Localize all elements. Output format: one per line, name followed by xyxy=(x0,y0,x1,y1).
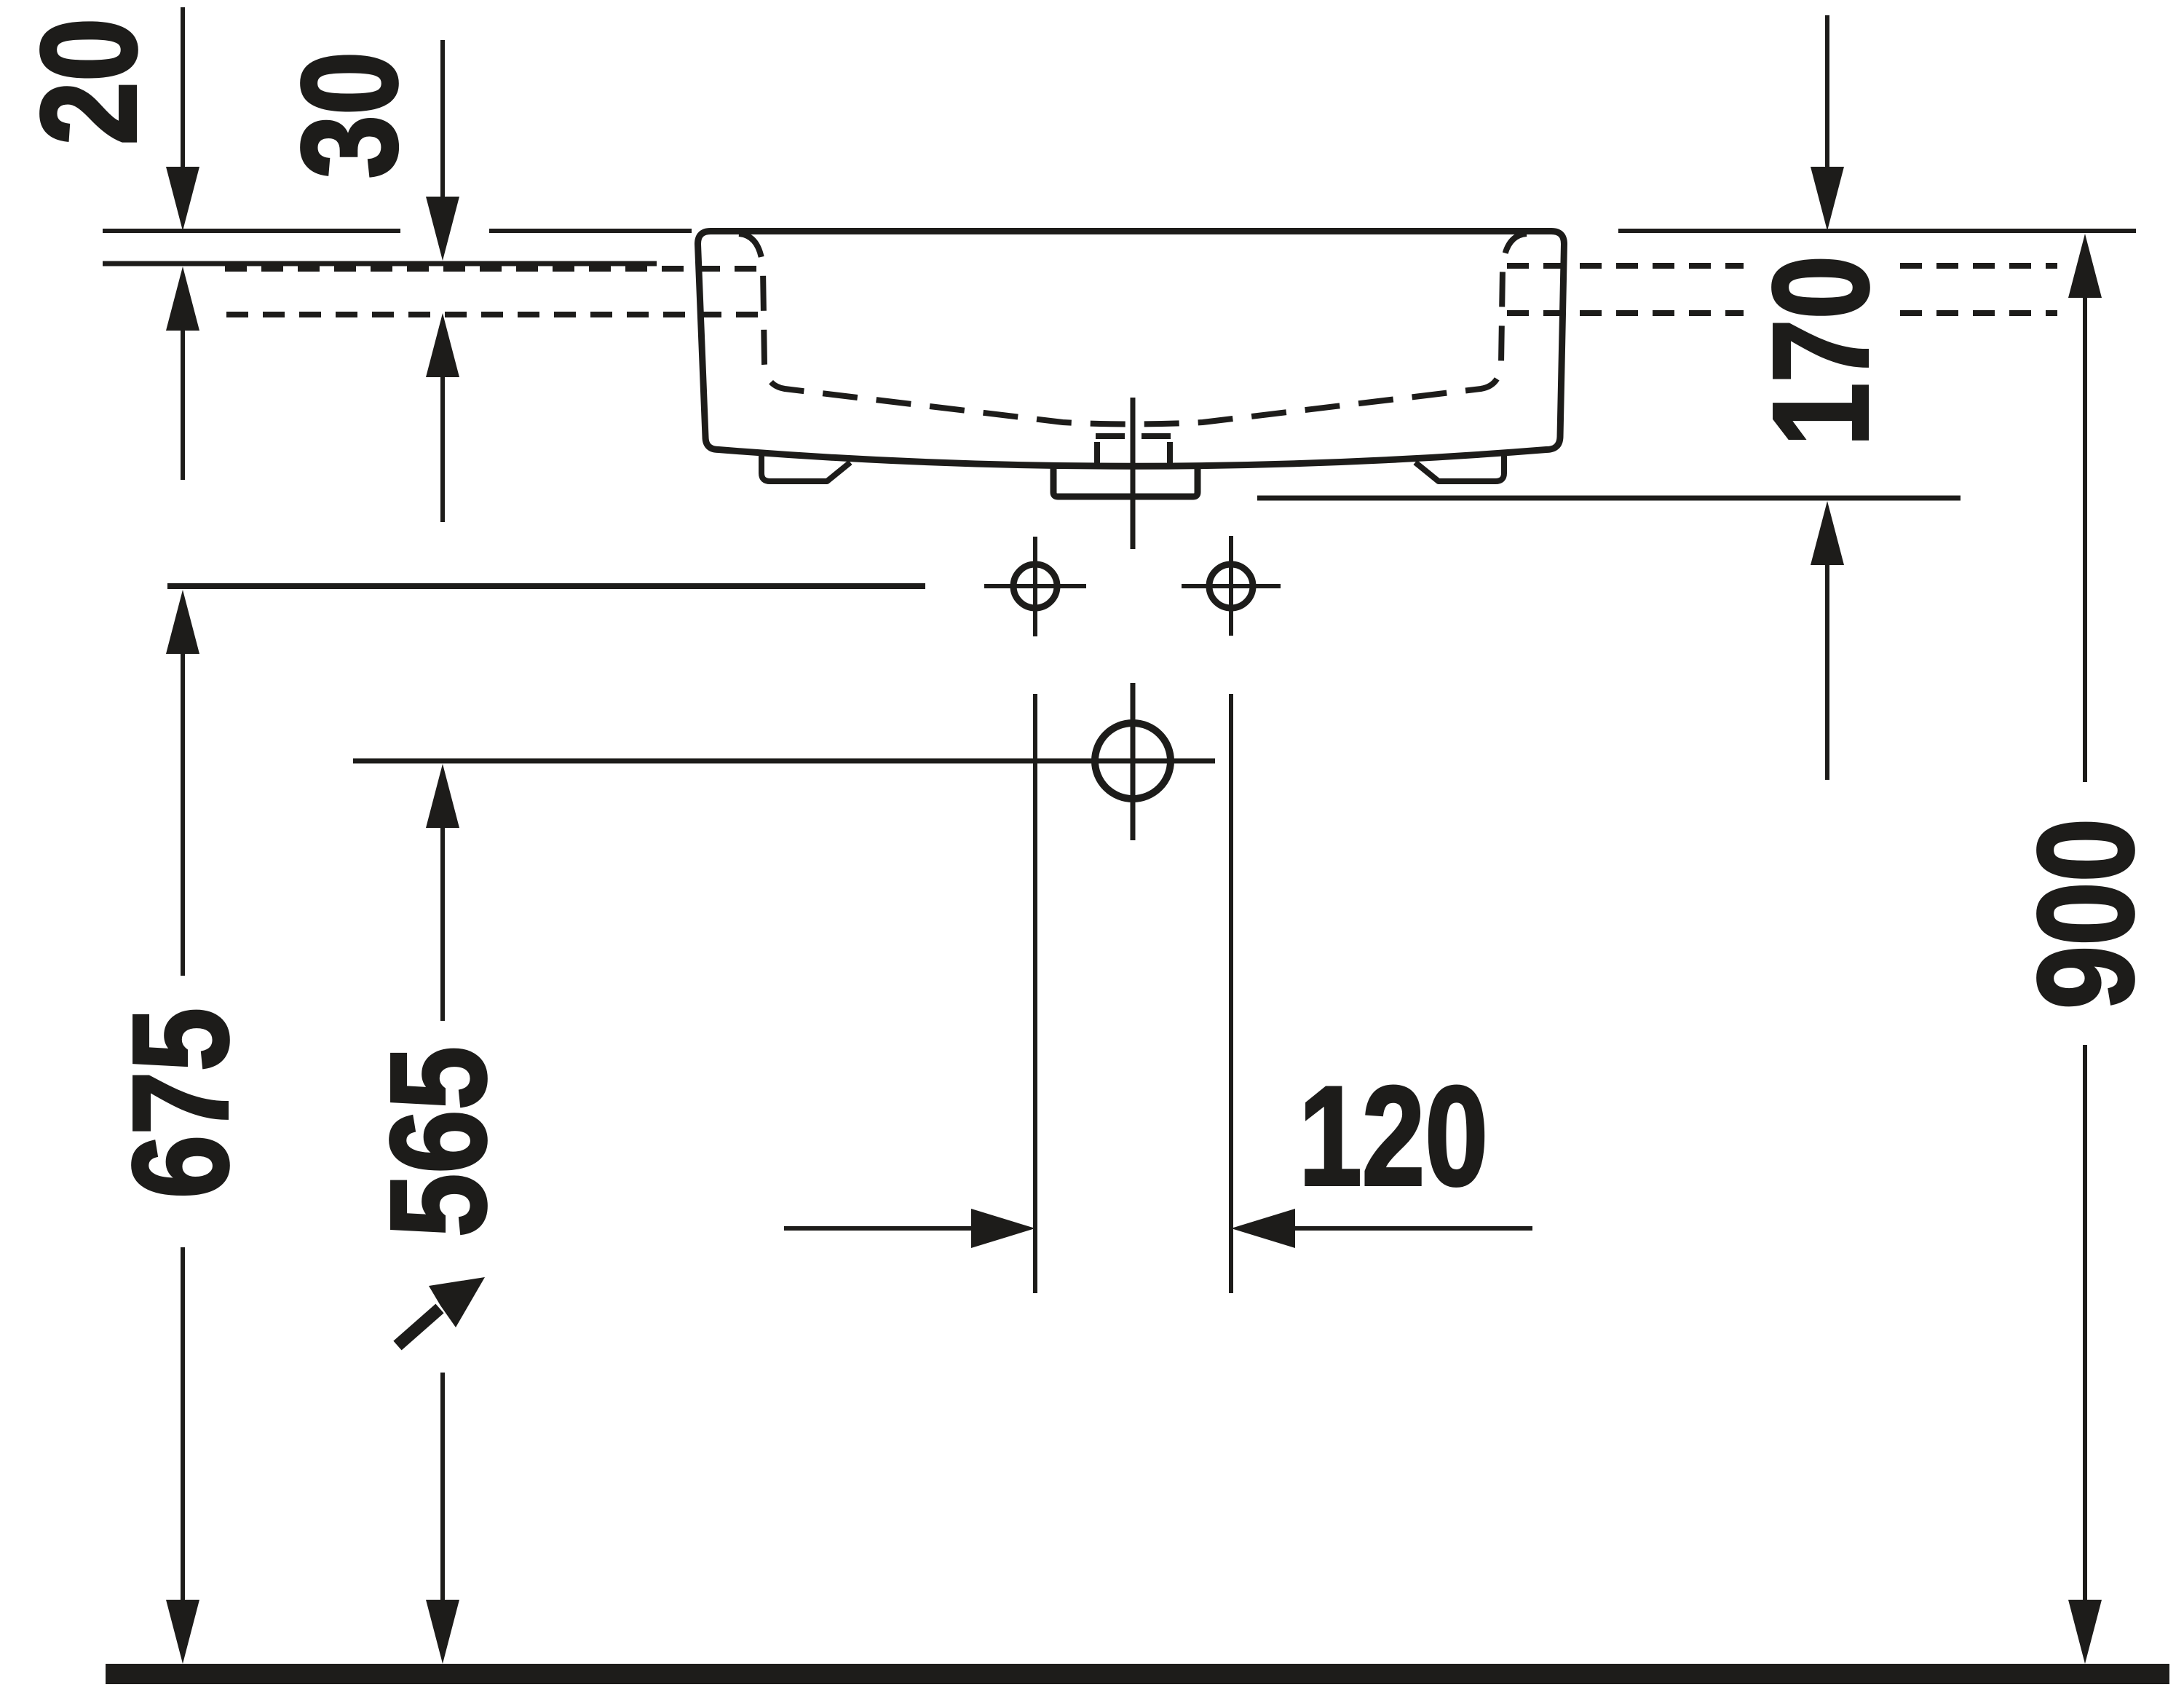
wall reference line upper right xyxy=(1618,229,2136,233)
dim 675 line upper xyxy=(181,654,185,976)
dim 120 right arrowhead xyxy=(1231,1209,1295,1248)
hidden rim dashed line left lower xyxy=(226,312,763,317)
dim 170 arrow up xyxy=(1811,501,1844,565)
hidden rim dashed line right lower segment b xyxy=(1900,310,2057,316)
dim 30 line lower xyxy=(440,377,445,522)
drain height extension line xyxy=(353,759,1215,764)
dim 565 line upper xyxy=(440,828,445,1021)
drain hole circle xyxy=(1095,723,1171,799)
dim 120 right arrow line xyxy=(1295,1226,1532,1231)
wall reference line upper left xyxy=(103,229,400,233)
dim 170 line upper xyxy=(1825,15,1829,167)
hidden drain pipe dashes vertical left xyxy=(1094,442,1100,464)
drain fitting rectangle xyxy=(1053,466,1198,497)
dim 20 line upper xyxy=(181,7,185,167)
dim 565 arrow down xyxy=(426,1600,459,1664)
hidden rim dashed line right upper segment b xyxy=(1900,263,2057,269)
faucet hole axis extension line xyxy=(167,583,925,589)
basin underside reference line right xyxy=(1257,496,1961,501)
dim 565 line lower xyxy=(440,1373,445,1600)
dim 120 extension line right xyxy=(1229,694,1233,1293)
dim 900 line upper xyxy=(2083,298,2087,782)
countertop line left xyxy=(103,261,657,266)
dim 120 left arrowhead xyxy=(971,1209,1035,1248)
dim 30 arrow up xyxy=(426,313,459,377)
dim 900 line lower xyxy=(2083,1045,2087,1600)
dim 675 arrow down xyxy=(166,1600,199,1664)
wall reference line upper middle xyxy=(489,229,692,233)
basin interior bowl hidden outline xyxy=(739,234,1527,425)
dim 20 arrow down xyxy=(166,167,199,231)
dim 30 arrow down xyxy=(426,197,459,261)
dim 170 line lower xyxy=(1825,565,1829,780)
hidden rim dashed line right upper segment a xyxy=(1507,263,1744,269)
dim 565 arrow up xyxy=(426,764,459,828)
right faucet hole crosshair vertical xyxy=(1229,536,1233,636)
slope arrow shaft xyxy=(397,1308,440,1346)
dim 120 extension line left xyxy=(1033,694,1037,1293)
hidden drain pipe dashes vertical right xyxy=(1167,442,1173,464)
dim 900 arrow up xyxy=(2068,234,2102,298)
basin outline xyxy=(698,232,1564,467)
drain hole crosshair vertical xyxy=(1131,683,1136,840)
svg-text:900: 900 xyxy=(2011,818,2161,1009)
svg-text:120: 120 xyxy=(1299,1058,1488,1215)
drain centerline xyxy=(1131,398,1136,549)
right faucet hole crosshair horizontal xyxy=(1182,584,1281,588)
svg-text:20: 20 xyxy=(14,18,165,146)
left faucet hole crosshair vertical xyxy=(1033,537,1037,636)
svg-text:170: 170 xyxy=(1746,256,1896,446)
left faucet hole crosshair horizontal xyxy=(984,584,1086,588)
left foot xyxy=(761,453,850,481)
dim 20 arrow up xyxy=(166,266,199,331)
svg-text:675: 675 xyxy=(106,1008,256,1199)
hidden drain pipe dash horizontal left xyxy=(1096,433,1125,439)
dim 900 arrow down xyxy=(2068,1600,2102,1664)
slope arrow head xyxy=(429,1277,485,1327)
dim 120 left arrow line xyxy=(784,1226,971,1231)
hidden rim dashed line left upper xyxy=(225,266,763,272)
dim 20 line lower xyxy=(181,331,185,480)
left faucet hole circle xyxy=(1013,564,1057,608)
dim 675 arrow up xyxy=(166,590,199,654)
dim 170 arrow down xyxy=(1811,167,1844,231)
hidden drain pipe dash horizontal right xyxy=(1142,433,1171,439)
hidden rim dashed line right lower segment a xyxy=(1507,310,1744,316)
dim 675 line lower xyxy=(181,1247,185,1600)
right faucet hole circle xyxy=(1209,564,1253,608)
svg-text:565: 565 xyxy=(363,1046,514,1237)
svg-text:30: 30 xyxy=(274,52,425,179)
floor xyxy=(106,1664,2169,1684)
right foot xyxy=(1415,453,1504,481)
dim 30 line upper xyxy=(440,40,445,197)
